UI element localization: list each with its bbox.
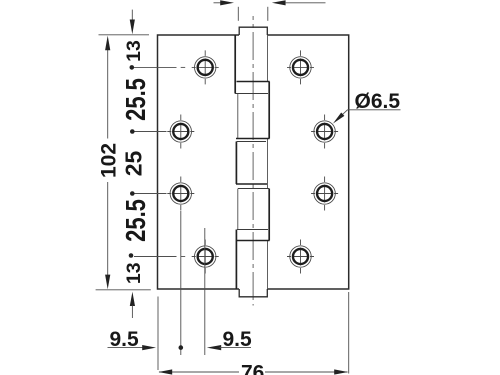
chain bottom arrow [130,292,135,306]
dimension 102 line [107,49,109,139]
dimension 102 top arrow [105,36,110,51]
knuckle joint 2 upper line [236,138,270,140]
leader diagonal [339,110,348,118]
top dimension left arrow [220,0,234,5]
row line 1 (dot to hole A1) [134,66,177,68]
knuckle right edge segment 5 (thin) [267,241,269,290]
row line 4 (dot to hole A4) [134,256,177,258]
knuckle left edge segment 1 (thick) [234,35,236,94]
svg-text:13: 13 [123,262,145,284]
top dimension right arrow [272,0,286,5]
dimension 76 line left segment [159,371,239,373]
extension line hinge right edge down [348,292,350,374]
dimension 102 bottom arrow [105,275,110,290]
top dimension line (knuckle width) left segment [214,2,222,4]
screw hole A3 (left leaf, row 3) [167,177,194,211]
knuckle right edge segment 2 (thick) [268,82,270,139]
hinge left leaf outline [158,35,240,289]
leader underline [348,109,401,111]
screw hole B1 (right leaf, row 1) [287,50,314,84]
dimension 76 line right segment [265,371,348,373]
knuckle joint 1 lower line [235,93,268,95]
chain dot row 3 [130,191,135,196]
svg-text:25: 25 [120,151,146,177]
screw hole A1 (left leaf, row 1) [192,50,219,84]
knuckle joint 4 upper line [237,229,268,231]
chain dot row 4 [129,253,134,258]
knuckle center line [252,16,254,306]
dimension 9.5 middle: line [220,347,252,349]
dimension 9.5 left: arrow [142,345,156,350]
screw hole B2 (right leaf, row 2) [311,115,338,149]
screw hole B3 (right leaf, row 3) [311,177,338,211]
knuckle left edge segment 5 (thick) [235,230,237,290]
dimension 9.5 left: line [108,347,144,349]
knuckle right edge segment 1 (thin) [267,35,269,82]
svg-text:102: 102 [98,143,121,178]
screw hole A2 (left leaf, row 2) [167,115,194,149]
hinge right leaf outline [268,35,349,289]
screw hole B4 (right leaf, row 4) [287,240,314,274]
extension line hole column x=204.8 down [204,228,206,355]
chain dot row 1 [130,65,135,70]
svg-text:76: 76 [241,362,264,375]
svg-text:9.5: 9.5 [110,328,140,351]
knuckle left edge segment 2 (thin) [237,94,239,139]
knuckle joint 4 lower line [236,240,270,242]
knuckle right edge segment 4 (thick) [268,189,270,241]
screw hole A4 (left leaf, row 4) [192,240,219,274]
top dimension extension line right [267,7,269,21]
chain top arrow [131,10,133,21]
knuckle left edge segment 4 (thin) [237,189,239,230]
chain dot row 2 [130,129,135,134]
dimension 9.5 middle: arrow [207,345,221,350]
svg-text:25.5: 25.5 [121,199,152,242]
row line 2 (dot to hole A2) [135,131,167,133]
top dimension line right segment [285,2,326,4]
svg-text:25.5: 25.5 [121,78,152,121]
row line 3 (dot to hole A3) [135,193,167,195]
extension line bottom (y=289.8) [96,289,151,291]
dimension 76 right arrow [334,369,348,374]
dimension 9.5 middle: shared dot [179,345,184,350]
knuckle joint 2 lower line [237,141,267,143]
top dimension extension line left [237,7,239,21]
leader arrow [333,113,344,124]
knuckle right edge segment 3 (thin) [267,139,269,189]
knuckle joint 3 upper line [236,183,267,185]
knuckle bottom cap [239,289,267,297]
knuckle joint 1 upper line [237,81,270,83]
extension line hinge left edge down [157,297,159,371]
knuckle top cap [239,27,267,35]
knuckle left edge segment 3 (thick) [235,142,237,185]
dimension 76 left arrow [158,369,172,374]
svg-text:9.5: 9.5 [223,328,253,351]
svg-text:13: 13 [123,40,145,62]
extension line top (y=34.8) [99,34,150,36]
extension line hole column x=180.8 down [180,211,182,355]
knuckle joint 3 lower line [238,188,269,190]
